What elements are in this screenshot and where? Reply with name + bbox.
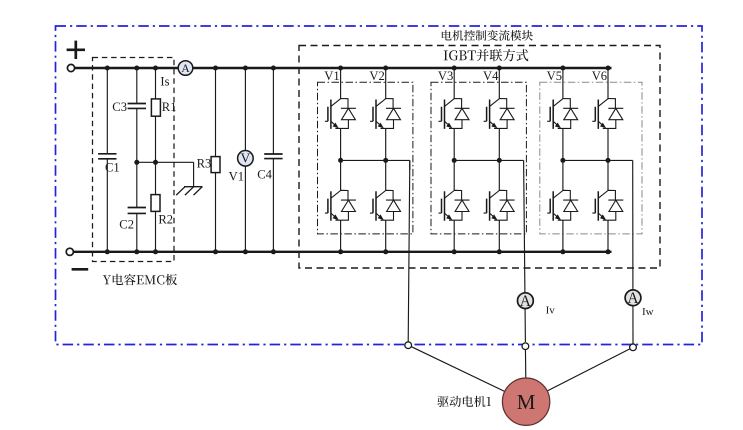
svg-text:Iv: Iv <box>546 305 556 317</box>
resistor R2 <box>151 195 160 212</box>
resistor R1 branch wire <box>155 68 157 99</box>
IGBT V6 upper <box>592 99 623 129</box>
wire phase W to motor <box>526 347 633 401</box>
svg-text:R2: R2 <box>158 213 173 227</box>
wire leg V4 <box>498 68 500 99</box>
IGBT V2 upper <box>370 99 401 129</box>
node phase terminal 2 <box>522 343 529 350</box>
capacitor C1 branch wire <box>106 68 108 154</box>
ammeter Iv <box>518 293 534 309</box>
wire phase V to motor <box>524 346 527 402</box>
IGBT pair 3 inner dash-dot box <box>540 82 642 234</box>
wire phase link pair 2 <box>454 159 523 161</box>
wire leg V6 <box>607 68 609 99</box>
wire phase U to motor <box>408 345 526 402</box>
svg-text:V4: V4 <box>483 69 499 83</box>
IGBT pair 1 inner dash-dot box <box>318 82 413 234</box>
capacitor C1 <box>98 153 116 155</box>
IGBT V2 lower <box>370 190 401 220</box>
label IGBT并联方式 <box>444 49 529 61</box>
svg-text:C4: C4 <box>257 167 272 181</box>
svg-text:Iw: Iw <box>642 306 654 318</box>
label 电机控制变流模块 <box>442 30 533 41</box>
IGBT V4 upper <box>484 99 515 129</box>
svg-text:V1: V1 <box>324 69 339 83</box>
resistor R3 <box>211 157 220 173</box>
IGBT V3 upper <box>439 99 470 129</box>
node C3-R1 junction <box>134 160 139 165</box>
IGBT V4 lower <box>484 190 515 220</box>
IGBT V1 lower <box>325 190 356 220</box>
capacitor C4 <box>264 153 282 155</box>
minus sign <box>72 268 89 271</box>
wire bottom DC bus <box>74 251 612 253</box>
svg-text:M: M <box>517 390 536 414</box>
svg-text:V: V <box>241 151 251 166</box>
svg-text:V5: V5 <box>547 69 562 83</box>
IGBT V6 lower <box>592 190 623 220</box>
node phase terminal 3 <box>630 344 637 351</box>
positive terminal <box>67 64 74 71</box>
capacitor C3 <box>128 103 146 105</box>
node pair 3 midpoints <box>560 158 565 163</box>
wire phase link pair 3 <box>563 159 633 161</box>
resistor R2 lower wire <box>155 211 157 251</box>
outer dash-dot system boundary box <box>56 26 703 345</box>
wire leg V3 <box>453 68 455 99</box>
wire phase link pair 1 <box>341 159 410 161</box>
svg-text:A: A <box>627 290 639 307</box>
svg-text:V1: V1 <box>229 169 244 183</box>
wire leg V2 <box>385 68 387 99</box>
voltmeter V1 <box>238 151 254 167</box>
label 驱动电机1 <box>437 396 491 407</box>
node phase terminal 1 <box>405 342 412 349</box>
voltmeter branch wire <box>244 68 246 252</box>
svg-text:V2: V2 <box>369 69 384 83</box>
wire top DC bus <box>75 67 612 69</box>
IGBT pair 2 inner dash-dot box <box>431 82 526 234</box>
svg-text:A: A <box>181 63 190 75</box>
IGBT V5 upper <box>547 99 578 129</box>
svg-text:R3: R3 <box>197 157 212 171</box>
resistor R1 <box>151 99 160 116</box>
node pair 1 midpoints <box>338 158 343 163</box>
wire mid link to ground <box>137 161 194 163</box>
IGBT V1 upper <box>325 99 356 129</box>
svg-text:C1: C1 <box>105 161 120 175</box>
IGBT V5 lower <box>547 190 578 220</box>
IGBT V3 lower <box>439 190 470 220</box>
svg-text:V3: V3 <box>438 69 453 83</box>
bottom bus junction nodes <box>105 249 110 254</box>
svg-text:V6: V6 <box>592 69 607 83</box>
wire phase W output <box>632 160 634 343</box>
svg-text:C3: C3 <box>112 100 127 114</box>
ammeter Is on top bus <box>178 61 193 76</box>
capacitor C4 branch wire <box>272 68 274 154</box>
wire leg V1 <box>340 68 342 99</box>
Y-capacitor EMC board dashed box <box>93 58 175 262</box>
ammeter Iw <box>625 290 641 306</box>
ground <box>184 186 203 188</box>
wire phase U output <box>409 160 411 170</box>
top bus junction nodes <box>105 66 110 71</box>
plus sign <box>67 48 85 51</box>
svg-text:C2: C2 <box>119 218 134 232</box>
node pair 2 midpoints <box>452 158 457 163</box>
capacitor C2 lower wire <box>136 213 138 251</box>
label Y电容EMC板 <box>103 274 177 286</box>
svg-text:R1: R1 <box>162 100 177 114</box>
wire phase V output <box>524 160 526 342</box>
converter module dashed box <box>299 46 660 269</box>
svg-text:Is: Is <box>160 75 169 89</box>
resistor R3 branch wire <box>215 68 217 157</box>
motor M1 <box>502 378 549 425</box>
negative terminal <box>66 248 73 255</box>
svg-text:A: A <box>520 293 532 310</box>
wire leg V5 <box>562 68 564 99</box>
capacitor C3 branch wire <box>136 68 138 104</box>
capacitor C2 <box>128 207 146 209</box>
